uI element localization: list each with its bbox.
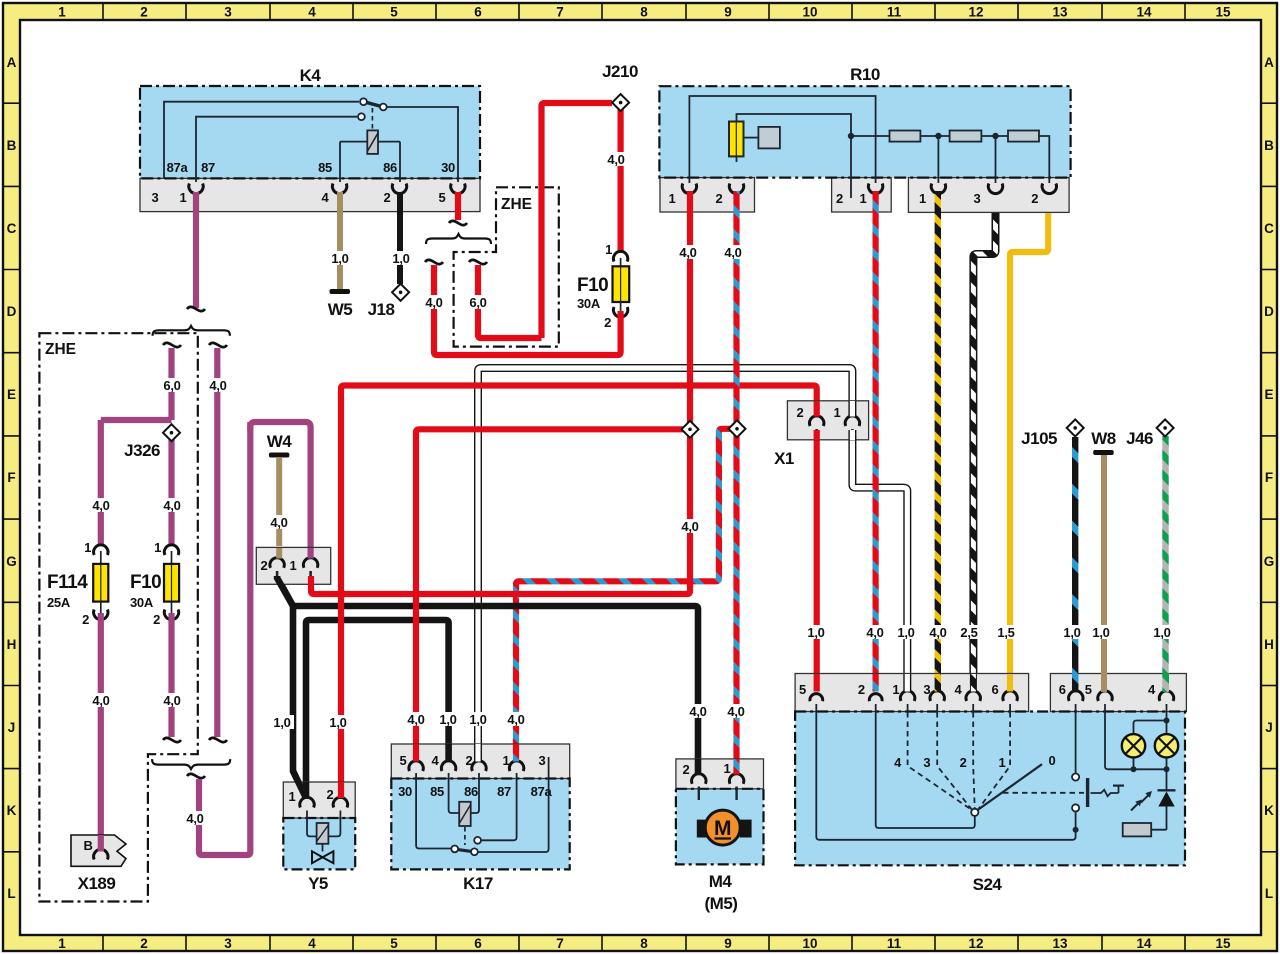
svg-text:R10: R10 [850,65,880,84]
switch S24 [795,674,1186,895]
svg-text:4: 4 [894,755,902,770]
svg-text:30: 30 [398,784,412,799]
wire: black/white R10-pin3C to S24-pin4 [973,213,995,692]
svg-text:1,0: 1,0 [1153,625,1170,640]
svg-text:D: D [1264,304,1274,319]
svg-text:1,0: 1,0 [469,712,486,727]
S24 washer push contacts [1072,773,1079,780]
svg-text:D: D [7,304,17,319]
svg-text:3: 3 [152,190,159,205]
svg-text:10: 10 [802,5,817,20]
svg-text:5: 5 [390,5,398,20]
svg-text:F: F [7,470,15,485]
svg-text:4,0: 4,0 [607,152,624,167]
svg-text:2: 2 [466,753,473,768]
wire: red F10 bottom to 4,0 stub [434,265,621,355]
S24 strip1 cups [810,691,1174,701]
svg-text:B: B [83,838,92,853]
svg-text:6: 6 [474,936,482,951]
svg-text:H: H [1264,637,1274,652]
svg-text:1,0: 1,0 [807,625,824,640]
svg-text:9: 9 [724,5,732,20]
wire: violet F10 lower stub [168,613,174,737]
S24 rotary switch dashed position lines [908,712,1084,810]
svg-text:M: M [714,817,732,840]
R10 pin cups [682,184,1056,194]
svg-text:1: 1 [834,405,841,420]
svg-text:J46: J46 [1126,429,1153,448]
svg-text:86: 86 [464,784,478,799]
R10 pin numbers [669,191,1039,206]
svg-text:4,0: 4,0 [270,515,287,530]
brace over ZHE stubs (points up) [153,326,230,336]
valve Y5 [283,782,355,893]
svg-text:6,0: 6,0 [469,295,486,310]
svg-text:4,0: 4,0 [727,704,744,719]
svg-text:B: B [7,138,17,153]
wire: red/blue splice to K17 pin1 [516,429,730,762]
svg-text:G: G [1264,554,1275,569]
svg-text:4,0: 4,0 [724,245,741,260]
svg-text:11: 11 [887,936,902,951]
svg-text:J: J [1265,720,1273,735]
svg-text:1,0: 1,0 [392,251,409,266]
wire: black Y5-pin1 to K17-pin4 [306,620,449,798]
svg-text:4,0: 4,0 [209,378,226,393]
svg-text:E: E [7,387,16,402]
wire: red X1-pin2 to Y5-pin2 [341,386,817,798]
svg-text:2: 2 [858,682,865,697]
svg-text:6: 6 [992,682,999,697]
svg-text:2: 2 [683,762,690,777]
svg-text:1,0: 1,0 [1063,625,1080,640]
svg-text:30: 30 [441,160,455,175]
brace under K4 pin5 [426,234,491,244]
svg-text:3: 3 [923,682,930,697]
svg-text:5: 5 [1085,682,1092,697]
svg-text:J: J [8,720,16,735]
svg-text:4,0: 4,0 [929,625,946,640]
wire: K4 pin4 brown to W5 [337,192,343,289]
svg-text:4,0: 4,0 [866,625,883,640]
svg-text:A: A [1264,55,1274,70]
svg-text:4: 4 [955,682,963,697]
svg-text:B: B [1264,138,1274,153]
svg-text:8: 8 [640,5,648,20]
svg-text:86: 86 [383,160,397,175]
svg-text:12: 12 [968,5,983,20]
splice J18 diamond [368,284,410,319]
svg-text:13: 13 [1052,5,1068,20]
ZHE box (left, dash-dot, around F114/F10/X189) [39,333,197,901]
svg-text:0: 0 [1049,753,1056,768]
svg-text:10: 10 [802,936,817,951]
wire: violet F114 to X189 [98,613,104,853]
terminal W5 bar [330,289,351,294]
svg-text:1: 1 [999,755,1006,770]
wire: red W4-pin1 to R10-pin1A (via splice) [311,191,690,594]
wire: red/blue R10-pin1B to S24-pin2 [872,191,878,692]
svg-text:1: 1 [84,540,91,555]
svg-text:7: 7 [556,936,564,951]
svg-text:2: 2 [153,612,160,627]
svg-text:4,0: 4,0 [163,693,180,708]
W4 stubs [276,548,282,559]
svg-text:6,0: 6,0 [163,378,180,393]
svg-text:F10: F10 [130,572,161,593]
svg-text:13: 13 [1052,936,1068,951]
splice diamond (red, to K17) [682,421,699,438]
squiggle below brace [187,774,205,778]
svg-text:K: K [7,803,17,818]
svg-text:4,0: 4,0 [681,519,698,534]
splice J210 diamond [612,94,629,111]
connector X189 flag [71,835,126,893]
svg-text:4: 4 [1148,682,1156,697]
svg-text:5: 5 [400,753,407,768]
svg-text:1: 1 [724,761,731,776]
svg-text:C: C [1264,221,1274,236]
svg-text:2: 2 [716,191,723,206]
squiggle on K4 pin5 red [449,221,467,225]
fuse F10 (middle) [577,242,629,330]
svg-text:4: 4 [308,5,316,20]
relay K17 [391,744,569,893]
svg-text:4: 4 [322,190,330,205]
ZHE box (middle, dash-dot) [454,187,559,346]
K4 internal wiring [164,102,458,182]
svg-text:1: 1 [154,540,161,555]
svg-text:S24: S24 [973,875,1003,894]
svg-text:W8: W8 [1091,429,1116,448]
wire: violet stub 6,0 (to J326/fuses) [101,348,172,546]
svg-text:2: 2 [604,315,611,330]
svg-text:E: E [1264,387,1273,402]
wire: red X1-pin2 lower to S24-pin5 [814,438,820,692]
wire: red J210 diamond down to fuse F10 [617,108,623,252]
svg-text:4,0: 4,0 [407,712,424,727]
svg-text:2: 2 [797,405,804,420]
svg-text:3: 3 [923,755,930,770]
svg-text:3: 3 [224,936,232,951]
M4 stubs [695,759,702,775]
wire: J46 green/white to S24 [1162,436,1168,692]
svg-text:4: 4 [432,753,440,768]
svg-text:1: 1 [919,191,926,206]
motor M4 [676,759,764,913]
splice diamond (red/blue, to M4) [729,420,746,437]
wire: J105 blue/black to S24 [1072,437,1078,692]
K4 relay contact arm [366,102,381,106]
svg-text:2: 2 [82,612,89,627]
svg-text:X189: X189 [78,874,116,893]
svg-text:87: 87 [497,784,511,799]
svg-text:L: L [1265,886,1273,901]
relay K4 box [140,86,480,212]
svg-text:F114: F114 [47,572,88,593]
svg-text:87a: 87a [167,160,189,175]
svg-text:J18: J18 [368,300,395,319]
svg-text:G: G [6,554,17,569]
svg-text:14: 14 [1136,936,1152,951]
wire: violet stub 4,0 (outside ZHE) [214,348,220,737]
S24 lamps [1122,734,1178,757]
svg-text:1: 1 [860,191,867,206]
K4 coil [371,108,373,130]
splice J46 diamond [1157,419,1174,436]
fuse F10 (left) [130,540,179,627]
S24 strip1 stubs [814,674,820,692]
svg-text:1: 1 [58,936,66,951]
connector X1 [774,401,868,468]
svg-text:F: F [1265,470,1273,485]
wire: K4 pin2 black to J18 [397,192,403,284]
wire: K4 pin5 red stub [455,192,461,220]
svg-text:H: H [7,637,17,652]
wire: white S24-pin1 to X1 lower (outline+core) [852,438,907,692]
R10 internal wiring [689,96,1049,198]
wire labels mid area [270,245,1174,730]
fuse F114 [47,540,108,627]
svg-text:J105: J105 [1021,429,1057,448]
svg-text:1: 1 [669,191,676,206]
svg-text:Y5: Y5 [308,874,328,893]
svg-text:14: 14 [1136,5,1152,20]
svg-text:M4: M4 [709,872,733,891]
wire: violet to W4 loop [199,422,250,855]
wire: violet below J326 to fuse F10 [168,432,174,546]
wire: red K17-pin5 to splice [416,429,683,762]
wire: yellow/black R10-pin1C to S24-pin3 [935,191,941,692]
svg-text:ZHE: ZHE [45,341,76,358]
svg-text:85: 85 [318,160,332,175]
violet squiggle above brace [187,307,205,311]
svg-text:30A: 30A [577,296,601,311]
svg-text:1: 1 [290,558,297,573]
svg-text:4,0: 4,0 [425,295,442,310]
svg-text:5: 5 [390,936,398,951]
S24 resistor [1123,823,1152,836]
svg-text:1: 1 [503,753,510,768]
svg-text:2: 2 [384,190,391,205]
svg-text:4,0: 4,0 [92,693,109,708]
wire: black W4-pin2 to Y5/M4 (trunk) [277,577,305,797]
svg-text:4: 4 [308,936,316,951]
svg-text:F10: F10 [577,275,608,296]
svg-text:(M5): (M5) [705,894,738,913]
junction dots [848,133,854,139]
R10 thermal fuse (yellow) [729,122,744,157]
splice J105 diamond [1067,419,1084,436]
svg-text:1,0: 1,0 [439,712,456,727]
svg-text:1: 1 [58,5,66,20]
svg-text:W5: W5 [328,300,353,319]
svg-text:2: 2 [140,936,148,951]
svg-text:1,0: 1,0 [329,715,346,730]
svg-text:1: 1 [180,190,187,205]
svg-text:K17: K17 [463,874,493,893]
svg-text:2: 2 [1031,191,1038,206]
svg-text:J326: J326 [124,441,160,460]
svg-text:2: 2 [261,558,268,573]
svg-text:1: 1 [605,242,612,257]
svg-text:2: 2 [140,5,148,20]
svg-text:1: 1 [289,789,296,804]
resistor elements [890,131,921,142]
svg-text:15: 15 [1215,5,1231,20]
wire stubs over connector strips [101,401,1166,852]
svg-text:8: 8 [640,936,648,951]
wire: K4 pin1 violet down [193,192,199,308]
svg-text:4,0: 4,0 [92,498,109,513]
X189 stub [98,835,104,852]
S24 push button symbol [1086,778,1089,807]
wire: red J210 feed (vertical + top run) [542,103,613,338]
svg-text:7: 7 [556,5,564,20]
R10 control box (gray square) [758,127,780,148]
svg-text:5: 5 [799,682,806,697]
svg-text:6: 6 [474,5,482,20]
svg-text:9: 9 [724,936,732,951]
splice J326 diamond [163,424,180,441]
svg-text:87: 87 [201,160,215,175]
svg-text:ZHE: ZHE [501,196,532,213]
svg-text:1,0: 1,0 [1092,625,1109,640]
svg-text:1,5: 1,5 [997,625,1014,640]
wire: black branch to M4 pin2 [292,606,698,775]
svg-text:J210: J210 [602,62,638,81]
svg-text:K4: K4 [300,66,322,85]
svg-text:30A: 30A [130,595,154,610]
S24 LED [1158,792,1174,807]
svg-text:3: 3 [224,5,232,20]
svg-text:4,0: 4,0 [186,811,203,826]
wire: red 6,0 stub to J210 run [478,265,542,338]
svg-text:6: 6 [1059,682,1066,697]
svg-text:A: A [7,55,17,70]
svg-text:85: 85 [430,784,444,799]
svg-text:2: 2 [960,755,967,770]
svg-text:12: 12 [968,936,983,951]
svg-text:5: 5 [439,190,446,205]
svg-text:1,0: 1,0 [897,625,914,640]
svg-text:4,0: 4,0 [163,498,180,513]
S24 internals [816,704,1166,840]
svg-text:2,5: 2,5 [960,625,977,640]
svg-text:25A: 25A [47,595,71,610]
X1 stubs [814,401,820,417]
svg-text:2: 2 [327,787,334,802]
svg-text:15: 15 [1215,936,1231,951]
svg-text:3: 3 [539,753,546,768]
wire: white X1-pin1 to K17-pin2 [478,368,852,762]
svg-text:3: 3 [974,191,981,206]
svg-text:W4: W4 [267,432,293,451]
S24 strip2 stubs [1072,674,1078,692]
svg-text:X1: X1 [774,449,794,468]
svg-text:1,0: 1,0 [331,251,348,266]
wire: yellow R10-pin2C to S24-pin6 [1010,213,1048,692]
svg-text:C: C [7,221,17,236]
brace below violet stubs (points down) [152,759,230,769]
svg-text:4,0: 4,0 [507,712,524,727]
svg-text:4,0: 4,0 [679,245,696,260]
K4 pin cups [189,184,465,194]
svg-text:11: 11 [887,5,902,20]
wire: red/blue R10-pin2A to M4-pin1 [733,191,739,775]
wire: violet arch over W4 to pin1 [250,422,310,560]
svg-text:2: 2 [836,191,843,206]
Y5 stubs [338,782,344,798]
resistor unit R10 box [659,86,1070,212]
svg-text:1,0: 1,0 [273,715,290,730]
S24 rotary arm (position 0) [978,764,1042,810]
connector strip W4 [256,547,330,584]
svg-text:K: K [1264,803,1274,818]
svg-text:1: 1 [892,682,899,697]
terminal W8 bar + brown wire [1093,450,1114,455]
svg-text:L: L [7,886,15,901]
svg-text:4,0: 4,0 [689,704,706,719]
K17 pin stubs [413,744,419,762]
